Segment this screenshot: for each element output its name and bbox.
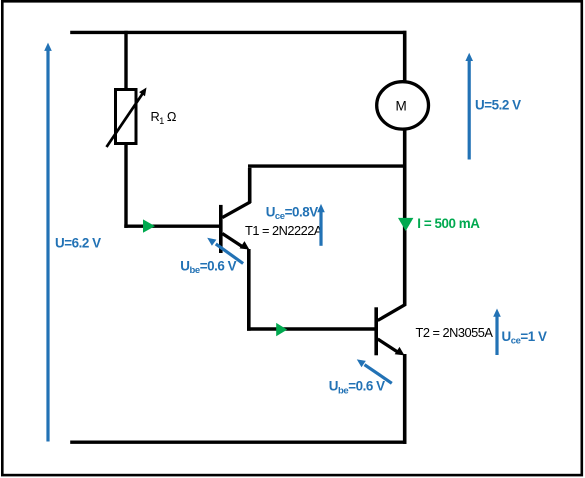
voltage arrow Ube of T1 (pointing up-left) [216, 244, 243, 264]
svg-text:Uce=1 V: Uce=1 V [502, 329, 548, 347]
wire: motor down to T2 collector junction [403, 128, 407, 305]
voltage arrow Uce of T2 (pointing up) [495, 315, 498, 355]
svg-text:T2 = 2N3055A: T2 = 2N3055A [416, 325, 494, 340]
svg-text:U=5.2 V: U=5.2 V [475, 98, 521, 113]
wire: top rail down to resistor R1 [124, 31, 127, 90]
wire: T2 emitter down to bottom rail [403, 354, 407, 444]
wire: top rail down to motor [403, 31, 407, 82]
wire: T1 collector to motor branch [248, 166, 406, 203]
voltage arrow U=5.2 V (right, pointing up) [468, 60, 471, 160]
svg-text:M: M [396, 99, 407, 114]
voltage arrow U=6.2 V (left, pointing up) [46, 50, 49, 442]
transistor T2 (2N3055A) [376, 304, 406, 355]
voltage arrow Uce of T1 (pointing up) [319, 211, 322, 246]
wire: top supply rail [70, 31, 406, 34]
wire: T1 emitter down and across to T2 base [247, 249, 375, 331]
current direction arrow into T2 base [276, 323, 287, 336]
current direction arrow into T1 base [143, 219, 155, 232]
wire: R1 to T1 base [124, 143, 219, 228]
resistor R1 (variable) [107, 88, 147, 148]
transistor T1 (2N2222A) [221, 202, 251, 253]
voltage arrow Ube of T2 (pointing up-left) [365, 365, 392, 384]
svg-text:T1 = 2N2222A: T1 = 2N2222A [245, 223, 323, 238]
svg-text:U=6.2 V: U=6.2 V [55, 236, 101, 251]
svg-text:Ube=0.6 V: Ube=0.6 V [329, 379, 385, 397]
svg-text:Ube=0.6 V: Ube=0.6 V [180, 258, 236, 276]
motor M [377, 82, 429, 129]
current arrow I (on motor wire) [398, 218, 413, 231]
wire: bottom return rail [70, 441, 406, 444]
svg-text:I = 500 mA: I = 500 mA [417, 216, 480, 231]
svg-text:R1 Ω: R1 Ω [151, 109, 177, 126]
svg-text:Uce=0.8V: Uce=0.8V [266, 204, 319, 222]
